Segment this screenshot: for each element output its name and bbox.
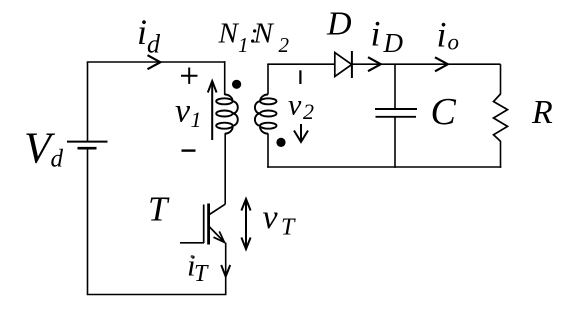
polarity dot secondary bbox=[276, 138, 285, 147]
wire: secondary left edge top bbox=[267, 64, 269, 95]
svg-text:T: T bbox=[148, 190, 170, 229]
voltage v2 polarity tick bbox=[299, 70, 301, 84]
svg-text:D: D bbox=[383, 28, 404, 58]
wire: top rail to primary coil bbox=[224, 61, 226, 95]
resistor R bbox=[494, 94, 508, 141]
current arrow io bbox=[435, 57, 448, 71]
svg-text:i: i bbox=[437, 15, 447, 55]
svg-text:D: D bbox=[326, 6, 352, 43]
svg-text:N: N bbox=[253, 18, 275, 50]
svg-text:i: i bbox=[137, 12, 147, 52]
svg-text:C: C bbox=[431, 91, 457, 133]
stray dot bbox=[191, 255, 194, 258]
svg-text:v: v bbox=[288, 88, 302, 121]
svg-text:R: R bbox=[531, 94, 553, 131]
wire: capacitor branch top bbox=[394, 64, 396, 109]
wire: secondary top rail (cathode side) bbox=[352, 63, 501, 65]
wire: primary coil to transistor collector bbox=[224, 133, 226, 204]
label D bbox=[326, 6, 352, 43]
current arrow iD bbox=[368, 57, 381, 71]
label v1 bbox=[175, 93, 202, 133]
svg-text:i: i bbox=[371, 13, 381, 53]
wire: secondary bottom rail bbox=[267, 166, 501, 168]
capacitor C bbox=[375, 109, 417, 117]
label R bbox=[531, 94, 553, 131]
wire: primary top rail bbox=[87, 61, 226, 63]
transformer primary winding bbox=[216, 94, 238, 133]
label Vd bbox=[24, 124, 64, 173]
label C bbox=[431, 91, 457, 133]
svg-text:d: d bbox=[147, 30, 161, 59]
wire: right edge bottom bbox=[500, 141, 502, 168]
svg-text:2: 2 bbox=[279, 33, 290, 57]
svg-text:d: d bbox=[51, 145, 64, 172]
label io bbox=[437, 15, 460, 55]
wire: battery top lead bbox=[87, 62, 89, 141]
polarity dot primary bbox=[232, 80, 241, 89]
wire: primary bottom rail bbox=[87, 294, 227, 296]
label i_d bbox=[137, 12, 161, 59]
svg-text:N: N bbox=[218, 18, 240, 50]
label T bbox=[148, 190, 170, 229]
plus sign (v1 polarity) bbox=[181, 68, 198, 84]
transformer secondary winding bbox=[255, 94, 277, 133]
svg-text:2: 2 bbox=[303, 99, 314, 124]
current arrow i_d bbox=[148, 55, 161, 69]
label vT bbox=[263, 199, 297, 241]
label iD bbox=[371, 13, 404, 58]
wire: transistor emitter to bottom rail bbox=[225, 243, 227, 295]
svg-text:1: 1 bbox=[238, 33, 249, 57]
transistor T (IGBT) bbox=[180, 204, 225, 245]
voltage arrow vT (double-headed) bbox=[241, 199, 250, 249]
voltage arrow v1 (pointing up) bbox=[208, 81, 217, 140]
svg-text:v: v bbox=[175, 93, 191, 130]
wire: battery bottom lead bbox=[87, 148, 89, 295]
wire: secondary top rail (anode side) bbox=[267, 63, 335, 65]
label N1:N2 bbox=[218, 18, 290, 57]
svg-text:v: v bbox=[263, 199, 279, 236]
label iT bbox=[187, 248, 209, 287]
diode D bbox=[335, 51, 352, 78]
label v2 bbox=[288, 88, 314, 124]
minus sign (v1 polarity) bbox=[182, 149, 196, 151]
wire: capacitor branch bottom bbox=[394, 117, 396, 168]
svg-text:o: o bbox=[448, 29, 460, 54]
svg-text:1: 1 bbox=[191, 107, 202, 132]
svg-text:T: T bbox=[194, 261, 209, 287]
svg-text:T: T bbox=[281, 215, 296, 241]
current arrow iT bbox=[221, 265, 230, 277]
wire: secondary left edge bottom bbox=[267, 133, 269, 167]
battery Vd bbox=[67, 142, 108, 149]
voltage arrow v2 (pointing down) bbox=[294, 124, 308, 142]
wire: right edge top bbox=[500, 64, 502, 94]
